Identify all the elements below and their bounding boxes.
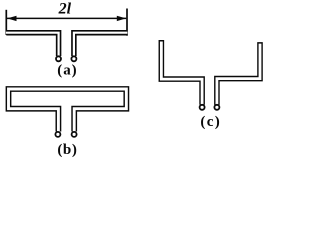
arrowhead left — [7, 16, 16, 21]
dipole (a) left arm — [6, 33, 58, 56]
terminal circle a2 — [71, 56, 76, 61]
arrowhead right — [117, 16, 126, 21]
dimension tick right — [126, 9, 128, 36]
svg-text:(a): (a) — [57, 63, 77, 79]
terminal circle c2 — [214, 105, 219, 110]
svg-text:(c): (c) — [200, 114, 221, 130]
svg-text:2l: 2l — [58, 1, 72, 18]
dimension tick left — [5, 10, 7, 35]
terminal circle a1 — [56, 56, 61, 61]
dipole (a) right arm — [74, 33, 127, 56]
terminal circle b2 — [72, 132, 77, 137]
svg-text:(b): (b) — [57, 142, 77, 158]
dimension line 2l — [7, 17, 126, 19]
folded dipole (b) loop with feed stubs — [9, 89, 127, 132]
bent monopole (c) right element — [217, 42, 260, 105]
terminal circle c1 — [200, 105, 205, 110]
terminal circle b1 — [55, 132, 60, 137]
bent monopole (c) left element — [161, 40, 202, 105]
